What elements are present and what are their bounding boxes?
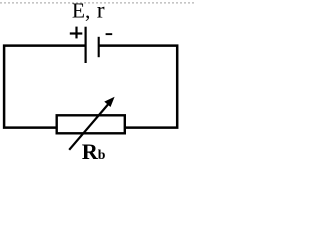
svg-text:r: r — [97, 0, 105, 23]
dashed separator line (top border) — [0, 2, 195, 4]
wire: battery - terminal -> top-right corner -> bottom-right corner -> rheostat right terminal — [99, 46, 178, 128]
svg-text:R: R — [82, 139, 99, 164]
polarity mark "+" at battery positive plate — [70, 27, 83, 39]
rheostat Rb: resistor body (rectangle) — [57, 115, 125, 133]
svg-text:E,: E, — [72, 0, 91, 22]
rheostat Rb: variable-arrow shaft — [69, 104, 108, 150]
polarity mark "-" at battery negative plate — [106, 33, 113, 35]
rheostat Rb: variable-arrow head — [104, 97, 114, 107]
battery E: short plate (- terminal) — [98, 37, 100, 57]
wire: battery + terminal -> top-left corner -> bottom-left corner -> rheostat left terminal — [4, 46, 85, 128]
svg-text:b: b — [98, 147, 106, 162]
battery E: long plate (+ terminal) — [84, 27, 86, 63]
